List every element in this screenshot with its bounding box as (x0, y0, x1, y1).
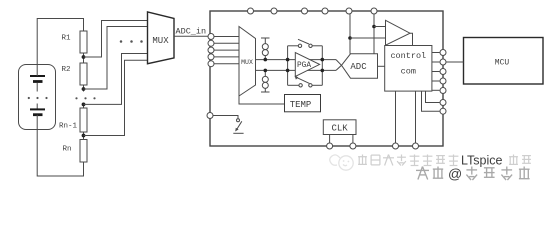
ADC block (342, 54, 378, 78)
battery cell 1 minus plate (33, 80, 43, 83)
resistor R1 (80, 31, 87, 53)
wires control bottom to lower right pins (422, 91, 440, 111)
svg-text:PGA: PGA (297, 62, 311, 70)
svg-text:R2: R2 (62, 66, 71, 74)
wire Rn-1 to Rn (83, 132, 85, 140)
wire ADC ref up left (349, 11, 351, 54)
current source I2 bottom bar (261, 91, 270, 93)
node tap1 dot (82, 55, 86, 59)
wires CLK to bottom pins (329, 135, 331, 144)
svg-text:ADC_in: ADC_in (176, 27, 207, 37)
mux U1 (148, 12, 175, 64)
svg-text:MUX: MUX (152, 36, 169, 46)
svg-text:CLK: CLK (331, 124, 348, 134)
AFE block boundary (210, 11, 443, 146)
svg-text:Rn-1: Rn-1 (59, 123, 78, 131)
svg-text:@: @ (448, 166, 462, 182)
watermark line 2 glyphs (416, 167, 530, 181)
node feedback dots (286, 58, 290, 62)
svg-text:com: com (401, 67, 416, 77)
wire tap3 to MUX in3 (84, 54, 148, 105)
svg-text:Rn: Rn (63, 146, 72, 154)
battery cell n plus plate (30, 108, 45, 110)
mux input ellipsis dots (120, 40, 143, 43)
wire ADC input chevron (336, 60, 342, 71)
resistor R2 (80, 63, 87, 85)
battery pack body (19, 65, 56, 130)
battery cell 1 plus plate (30, 75, 45, 77)
op-amp buffer (386, 20, 411, 45)
current source I2 (262, 76, 268, 82)
current source I1 top bar (261, 37, 270, 39)
wire ADC ref up right (373, 11, 375, 54)
pin circles left edge (208, 34, 214, 67)
svg-text:LTspice: LTspice (461, 154, 503, 168)
wire diff line minus (256, 69, 337, 71)
pin circle switch left edge (207, 113, 213, 119)
wires left pins to mux U2 (214, 36, 239, 38)
wire mux U2 to TEMP (239, 96, 284, 104)
node tap4 dot (82, 134, 86, 138)
TEMP box (285, 95, 321, 112)
resistor Rn-1 (80, 108, 87, 132)
switch S3 (213, 116, 238, 119)
resistor Rn (80, 140, 87, 163)
wire cell n upper stub (36, 104, 38, 110)
wire feedback left vertical (287, 46, 289, 86)
wire cell1 lower stub (36, 83, 38, 92)
MCU box (464, 38, 544, 85)
wire buffer input upper (374, 26, 386, 28)
svg-text:R1: R1 (62, 35, 72, 43)
wire feedback right vertical (321, 46, 323, 86)
switch S1 feedback top (288, 45, 299, 47)
chain ellipsis dots (75, 97, 95, 99)
wire tap1 to MUX in1 (84, 21, 148, 58)
op-amp PGA (295, 53, 319, 77)
wire ADC to control (378, 65, 385, 67)
wires control to right pins (432, 52, 440, 54)
current source I1 (262, 44, 268, 50)
battery ellipsis dots (28, 97, 48, 99)
pin circles right edge (440, 50, 446, 115)
watermark line 1 glyphs (358, 155, 531, 166)
svg-text:MCU: MCU (495, 59, 510, 68)
wire battery top lead (37, 19, 83, 77)
mux U2 (239, 27, 256, 97)
wire buffer input lower (350, 37, 386, 39)
wire to MCU (446, 61, 464, 63)
node tap2 dot (82, 87, 86, 91)
svg-text:ADC: ADC (350, 62, 367, 72)
wire buffer output (410, 33, 413, 45)
CLK box (323, 120, 356, 135)
node ref dots (348, 36, 352, 40)
node tap3 dot (82, 103, 86, 107)
svg-text:control: control (390, 51, 426, 61)
wire R1 to R2 (83, 53, 85, 63)
pin circles top edge (248, 8, 378, 14)
node diff+ I1 dot (264, 58, 268, 62)
wire tap2 to MUX in2 (84, 27, 148, 90)
wire ADC_in (174, 35, 208, 37)
control box (385, 46, 432, 92)
svg-text:TEMP: TEMP (290, 100, 312, 110)
wire tap4 to MUX in4 (84, 60, 148, 135)
wire Rn-1 upper stub (83, 103, 85, 109)
svg-text:MUX: MUX (241, 59, 253, 66)
node diff- I2 dot (264, 69, 268, 73)
wire diff line plus (256, 59, 337, 61)
watermark ghost icon (330, 155, 353, 170)
switch S2 feedback bottom (288, 84, 299, 86)
wire battery bottom lead (37, 115, 83, 176)
wire R2 lower stub (83, 85, 85, 92)
wires control bottom to bottom pins (395, 91, 397, 143)
pin circles bottom edge (327, 143, 419, 149)
battery cell n minus plate (33, 113, 43, 116)
